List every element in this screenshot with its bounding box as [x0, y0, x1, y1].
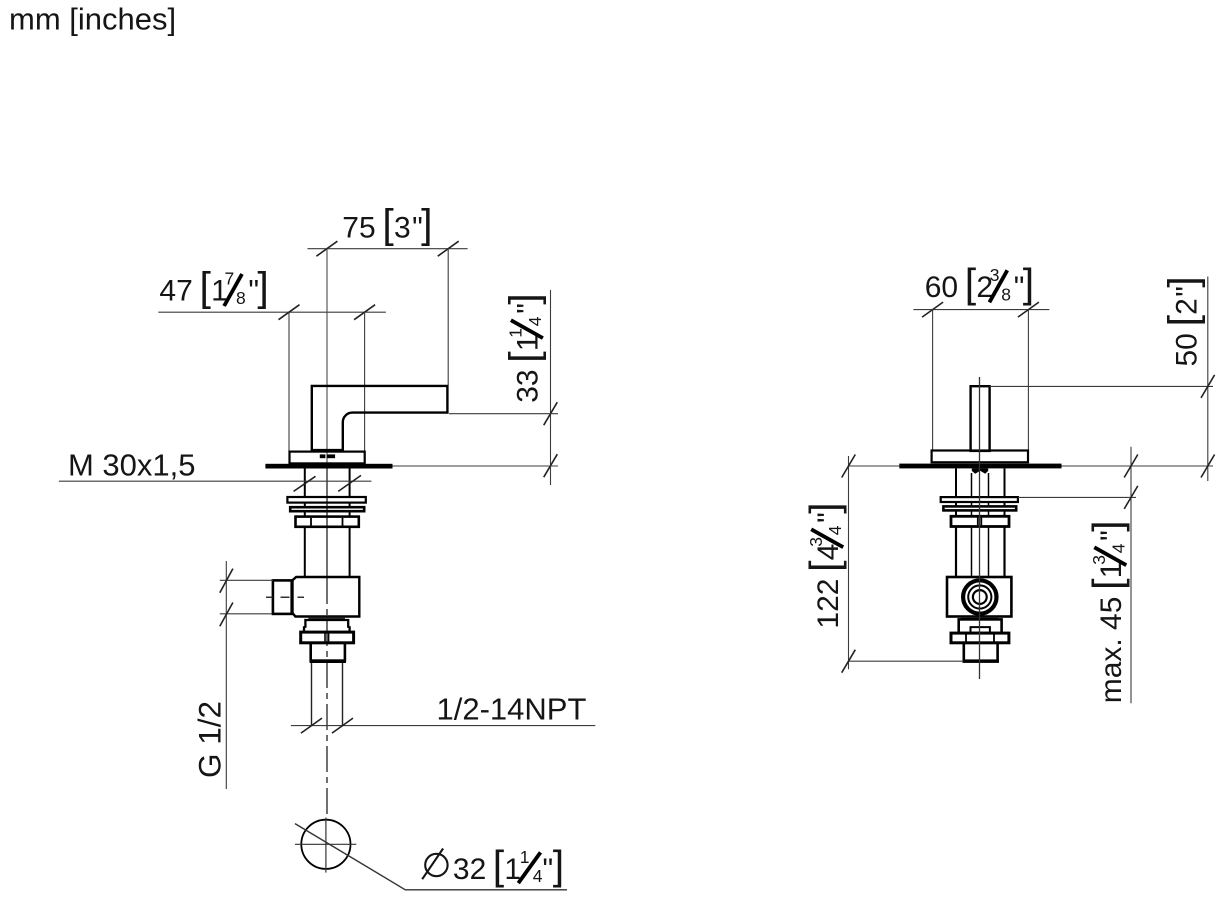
gasket (right) — [961, 617, 999, 619]
svg-text:1/2-14NPT: 1/2-14NPT — [437, 691, 587, 726]
svg-text:M 30x1,5: M 30x1,5 — [68, 448, 196, 483]
leader line to Ø32 label — [295, 824, 567, 890]
extension lines escutcheon (right) — [932, 310, 934, 451]
label 60 [2 3/8"] — [925, 260, 1034, 306]
svg-text:60: 60 — [925, 271, 958, 304]
M 30x1,5 leader line — [59, 480, 372, 482]
svg-text:]: ] — [1023, 260, 1034, 306]
label 33 [1 1/4"] rotated — [501, 293, 547, 402]
label 47 [1 7/8"] — [159, 264, 268, 310]
tube segment — [955, 510, 957, 516]
hole circle Ø32 — [301, 820, 350, 869]
valve stem (right) — [971, 386, 990, 451]
gasket under body (left) — [308, 617, 345, 619]
shank segments — [304, 503, 306, 508]
hex nut (right) — [951, 633, 1009, 643]
shank below deck (right) — [955, 468, 957, 497]
svg-text:50: 50 — [1171, 333, 1204, 366]
svg-text:[: [ — [493, 842, 505, 888]
svg-text:122: 122 — [812, 579, 845, 629]
svg-text:3: 3 — [806, 537, 826, 547]
svg-text:4: 4 — [533, 866, 543, 886]
stem top extension line — [990, 385, 1213, 387]
collar (right) — [959, 619, 1002, 633]
hex nut (left) — [301, 632, 354, 643]
dimension 33 [1 1/4"] vertical line — [550, 290, 552, 485]
set screw mark — [320, 454, 326, 458]
svg-text:G 1/2: G 1/2 — [192, 701, 228, 778]
svg-text:]: ] — [801, 502, 847, 513]
svg-text:75: 75 — [342, 212, 375, 245]
valve body (right) — [947, 577, 1011, 617]
extension lines escutcheon edges — [288, 312, 290, 452]
side outlet G1/2 — [273, 580, 292, 614]
supply pipe end — [311, 663, 313, 726]
outlet rings — [963, 580, 996, 613]
svg-text:]: ] — [257, 264, 268, 310]
washer extension line (max 45) — [1018, 496, 1136, 498]
extension line lever tip — [447, 249, 449, 385]
svg-text:]: ] — [1160, 276, 1206, 287]
washer 2 (right) — [943, 506, 1016, 510]
dimension 60 [2 3/8"] line — [913, 309, 1049, 311]
svg-text:]: ] — [1084, 520, 1130, 531]
svg-text:]: ] — [553, 842, 564, 888]
threaded end (left) — [311, 643, 345, 661]
circle center lines — [295, 843, 356, 845]
outlet center dashes — [266, 596, 307, 598]
svg-text:47: 47 — [159, 275, 192, 308]
bottom extension line (122) — [849, 660, 964, 662]
threaded end (right) — [964, 643, 998, 661]
G 1/2 extension lines — [220, 579, 273, 581]
label max. 45 [1 3/4"] rotated — [1084, 520, 1130, 703]
svg-text:4: 4 — [1108, 543, 1128, 553]
svg-text:33: 33 — [512, 369, 545, 402]
svg-text:8: 8 — [236, 288, 246, 308]
label Ø32 [1 1/4"] — [425, 854, 447, 876]
dimension 122 [4 3/4"] vertical line — [848, 456, 850, 669]
svg-text:]: ] — [501, 293, 547, 304]
deck extension line to 33 dim — [393, 465, 559, 467]
deck line (right) — [899, 464, 1061, 469]
svg-text:3: 3 — [1089, 555, 1109, 565]
svg-text:[: [ — [501, 351, 547, 363]
spindle silhouette below deck — [972, 468, 988, 473]
svg-text:4: 4 — [825, 525, 845, 535]
dimension 47 [1 7/8"] line — [158, 311, 386, 313]
svg-text:[: [ — [801, 560, 847, 572]
svg-text:7: 7 — [225, 269, 235, 289]
collar (left) — [304, 620, 350, 632]
collar inner tab — [971, 627, 990, 633]
svg-text:[: [ — [965, 260, 977, 306]
center axis right figure — [979, 377, 981, 679]
svg-text:[: [ — [382, 201, 394, 247]
svg-text:max. 45: max. 45 — [1095, 597, 1128, 704]
svg-text:32: 32 — [453, 853, 486, 886]
svg-text:4: 4 — [525, 316, 545, 326]
1/2-14NPT dimension line — [291, 725, 595, 727]
svg-text:": " — [543, 853, 554, 886]
svg-text:1: 1 — [520, 847, 530, 867]
thread diameter ticks — [294, 476, 316, 491]
washer 1 (right) — [941, 497, 1018, 502]
supply tube (left) — [304, 527, 306, 577]
threaded shank below deck — [304, 469, 306, 498]
svg-text:1: 1 — [506, 328, 526, 338]
svg-text:3: 3 — [394, 212, 411, 245]
svg-text:]: ] — [421, 201, 432, 247]
label 75 [3"] — [342, 201, 432, 247]
locknut (right) — [951, 516, 1009, 526]
escutcheon (right figure) — [932, 451, 1028, 463]
svg-text:mm [inches]: mm [inches] — [9, 1, 176, 36]
lever handle — [312, 386, 448, 450]
locknut (left) — [296, 517, 359, 527]
escutcheon (left figure) — [290, 452, 365, 464]
tube segment — [955, 502, 957, 506]
svg-text:[: [ — [200, 264, 212, 310]
dimension 50 [2"] vertical line — [1207, 277, 1209, 482]
deck extension lines — [849, 465, 900, 467]
center axis left figure — [326, 249, 328, 464]
svg-text:[: [ — [1160, 314, 1206, 326]
svg-text:2: 2 — [1171, 298, 1204, 315]
label 122 [4 3/4"] rotated — [801, 502, 847, 628]
extension line lever bottom — [449, 413, 558, 415]
label 50 [2"] rotated — [1160, 276, 1206, 366]
svg-text:[: [ — [1084, 578, 1130, 590]
deck line (left) — [265, 464, 392, 469]
washer 1 (left) — [287, 497, 365, 503]
svg-text:8: 8 — [1001, 284, 1011, 304]
valve body (left) — [293, 577, 360, 617]
label G 1/2 rotated — [192, 701, 228, 778]
supply tube (right) — [955, 527, 957, 578]
washer 2 (left) — [290, 507, 364, 511]
dimension 75 [3"] line — [308, 248, 468, 250]
dimension max 45 vertical line — [1130, 447, 1132, 704]
G 1/2 dimension line — [225, 561, 227, 789]
svg-text:3: 3 — [990, 265, 1000, 285]
